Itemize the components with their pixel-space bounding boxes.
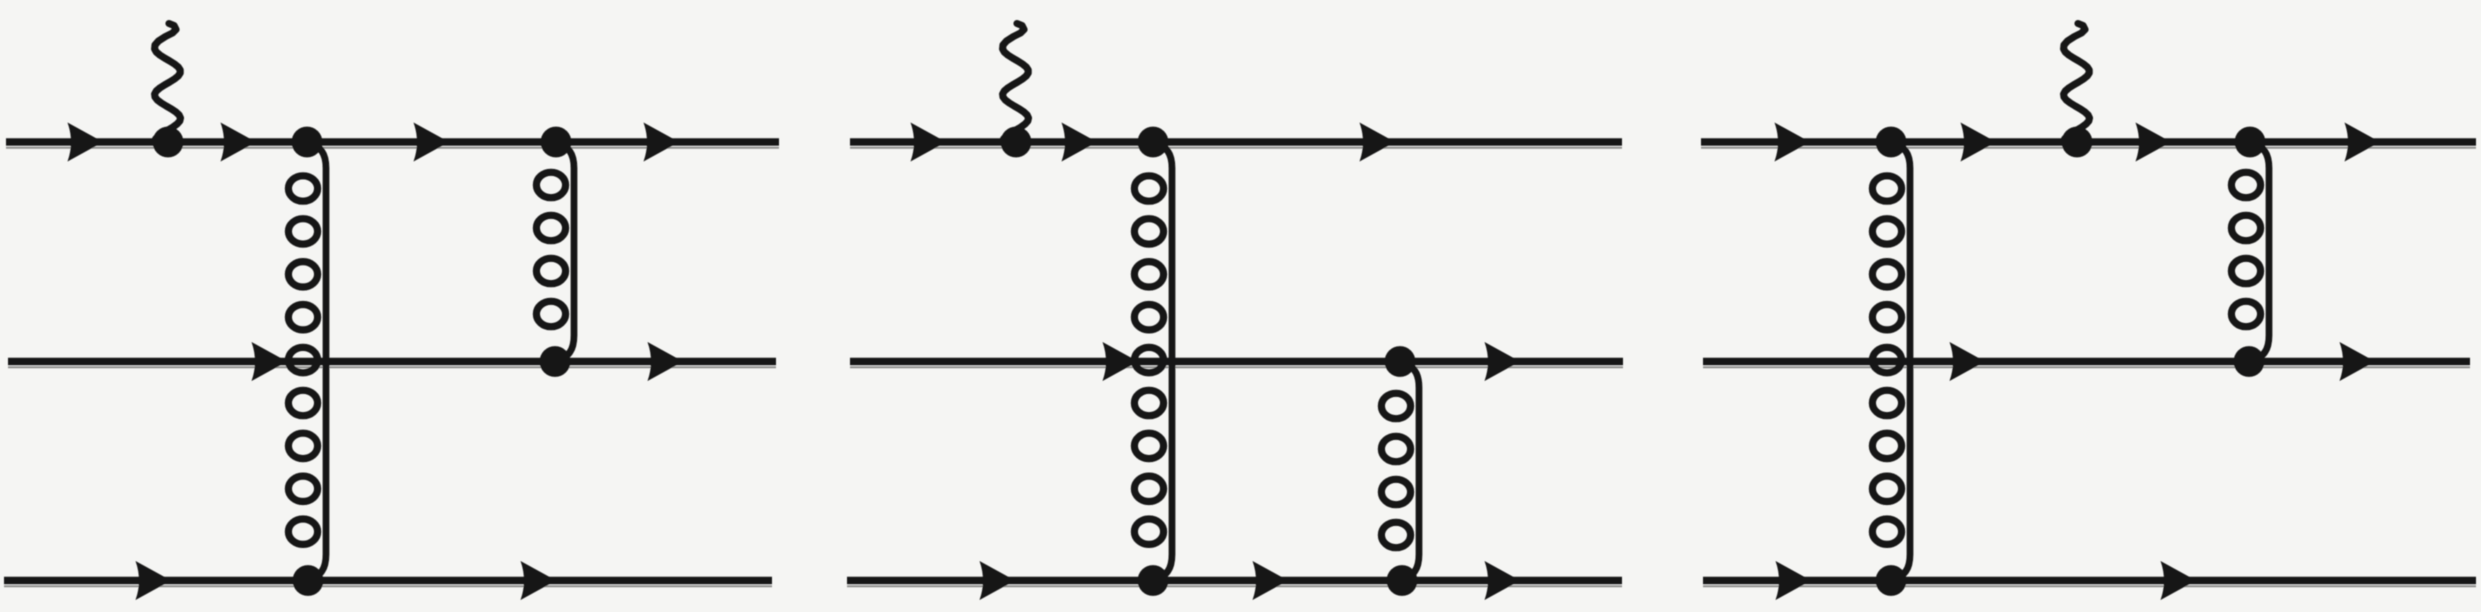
D1 gluon1 bottom vertex dot (293, 565, 324, 596)
D2 photon vertex dot (1001, 127, 1032, 158)
D2 middle arrow 2 (1485, 342, 1521, 381)
D2 middle quark line (850, 358, 1623, 366)
D3 gluon1 bottom vertex dot (1876, 565, 1907, 596)
D1 top arrow 2 (221, 123, 257, 162)
D1 gluon 1 (top to bottom) (288, 144, 326, 579)
D2 bottom quark line (847, 577, 1622, 585)
D1 bottom arrow 2 (521, 561, 557, 600)
D1 middle arrow 1 (252, 342, 288, 381)
D3 top quark line (1701, 138, 2476, 146)
D2 middle arrow 1 (1103, 342, 1139, 381)
D3 bottom arrow 2 (2161, 561, 2197, 600)
D1 gluon1 top vertex dot (292, 127, 323, 158)
D3 gluon1 top vertex dot (1876, 127, 1907, 158)
D2 gluon 1 (top to bottom) (1134, 144, 1172, 579)
D3 gluon 1 (top to bottom) (1872, 144, 1910, 579)
D1 gluon2 bottom vertex dot (540, 346, 571, 377)
D3 middle quark line (1703, 358, 2470, 366)
D3 gluon2 bottom vertex dot (2234, 346, 2265, 377)
D2 gluon1 bottom vertex dot (1138, 565, 1169, 596)
D2 bottom arrow 1 (980, 561, 1016, 600)
D2 gluon1 top vertex dot (1138, 127, 1169, 158)
D1 gluon 2 (top to middle) (536, 144, 574, 360)
D3 gluon2 top vertex dot (2235, 127, 2266, 158)
D2 top quark line (850, 138, 1622, 146)
D3 bottom quark line (1703, 577, 2476, 585)
D3 top arrow 3 (2136, 123, 2172, 162)
D1 middle quark line (8, 358, 776, 366)
D3 top arrow 2 (1961, 123, 1997, 162)
D3 middle arrow 1 (1950, 342, 1986, 381)
D1 top arrow 1 (68, 123, 104, 162)
D1 top quark line (6, 138, 779, 146)
D2 top arrow 1 (911, 123, 947, 162)
D1 bottom quark line (4, 577, 772, 585)
D3 photon vertex dot (2062, 127, 2093, 158)
D1 top arrow 3 (414, 123, 450, 162)
D1 middle arrow 2 (648, 342, 684, 381)
D1 bottom arrow 1 (136, 561, 172, 600)
D3 top arrow 1 (1775, 123, 1811, 162)
D1 photon wavy line (155, 24, 181, 140)
D2 gluon2 bottom vertex dot (1387, 565, 1418, 596)
D2 bottom arrow 2 (1253, 561, 1289, 600)
D1 top arrow 4 (644, 123, 680, 162)
D1 photon vertex dot (153, 127, 184, 158)
D3 top arrow 4 (2345, 123, 2381, 162)
D3 gluon 2 (top to middle) (2231, 144, 2269, 360)
D2 gluon 2 (middle to bottom) (1381, 364, 1419, 579)
D1 gluon2 top vertex dot (541, 127, 572, 158)
D2 photon wavy line (1003, 24, 1029, 140)
D3 bottom arrow 1 (1776, 561, 1812, 600)
D3 middle arrow 2 (2340, 342, 2376, 381)
D2 bottom arrow 3 (1485, 561, 1521, 600)
D2 gluon2 top vertex dot (1385, 346, 1416, 377)
D2 top arrow 2 (1062, 123, 1098, 162)
D2 top arrow 3 (1360, 123, 1396, 162)
D3 photon wavy line (2064, 24, 2090, 140)
